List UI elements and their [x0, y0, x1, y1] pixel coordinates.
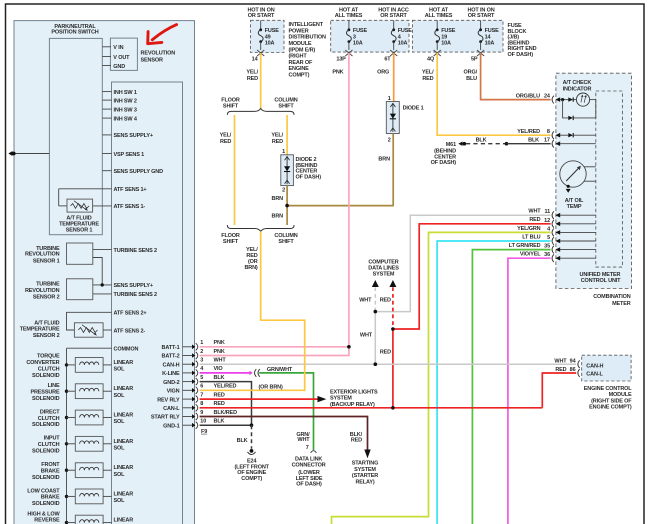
red annotation arrow [148, 25, 177, 44]
meter pin 8 connector [552, 131, 568, 139]
svg-text:M61: M61 [446, 142, 456, 148]
inline connector arcs [254, 369, 259, 377]
svg-text:WHT: WHT [528, 209, 541, 215]
wire WHT vertical to pin 3 [374, 312, 376, 365]
svg-text:INTELLIGENT: INTELLIGENT [289, 22, 324, 28]
wire ORG/BLU from fuse 14 to meter pin 24 [481, 53, 551, 100]
svg-text:SOLENOID: SOLENOID [32, 396, 60, 402]
svg-text:PNK: PNK [332, 70, 343, 76]
DATA LINK CONNECTOR label [292, 456, 326, 487]
svg-text:SENS SUPPLY+: SENS SUPPLY+ [114, 133, 153, 139]
svg-text:TEMP: TEMP [567, 204, 582, 210]
high & low reverse brake solenoid [27, 511, 133, 524]
svg-text:ATF SENS 1+: ATF SENS 1+ [114, 187, 147, 193]
diode pin 8 branch [568, 133, 596, 137]
svg-text:GND: GND [113, 64, 125, 70]
svg-text:CAN-H: CAN-H [586, 364, 603, 370]
wire BLK/RED pin 9 to starter relay [200, 417, 368, 451]
svg-text:FUSE: FUSE [485, 28, 500, 34]
ground E24 [248, 449, 256, 455]
svg-text:SYSTEM: SYSTEM [373, 271, 395, 277]
wire BRN below diode 2 [286, 186, 288, 225]
pin ATF SENS 2- [103, 329, 111, 331]
wire BRN horizontal to diode 1 branch [287, 205, 393, 207]
svg-text:LINEAR: LINEAR [114, 386, 134, 392]
svg-text:SOL: SOL [114, 445, 126, 451]
svg-text:WHT: WHT [360, 333, 373, 339]
svg-text:REAR OF: REAR OF [289, 60, 313, 66]
svg-text:K-LINE: K-LINE [162, 371, 180, 377]
svg-text:LT BLU: LT BLU [522, 234, 540, 240]
svg-text:SENSOR: SENSOR [141, 57, 164, 63]
svg-text:LINEAR: LINEAR [114, 439, 134, 445]
wire WHT pin 3 to ECM CAN-H [200, 363, 577, 365]
svg-text:1: 1 [200, 340, 203, 346]
combination meter outer box [556, 73, 632, 288]
svg-text:STARTING: STARTING [352, 461, 379, 467]
park/neutral position switch body box [49, 38, 102, 234]
svg-text:ORG/: ORG/ [464, 70, 478, 76]
svg-text:OR START: OR START [248, 13, 275, 19]
wire RED vertical to pin 8 [392, 329, 394, 408]
TCM pin 3 CAN-H [163, 358, 227, 369]
svg-text:5: 5 [200, 375, 203, 381]
svg-text:TORQUE: TORQUE [37, 354, 60, 360]
wire BRN below diode 1 [392, 134, 394, 207]
ECM pin 94 connector [578, 360, 580, 368]
svg-text:F9: F9 [201, 429, 207, 435]
low coast brake solenoid [27, 488, 133, 507]
svg-text:FUSE: FUSE [353, 28, 368, 34]
svg-text:19: 19 [441, 34, 447, 40]
svg-text:PRESSURE: PRESSURE [30, 390, 60, 396]
node lamp branch [561, 98, 564, 101]
svg-text:SOLENOID: SOLENOID [32, 449, 60, 455]
meter pin 4 connector [517, 226, 596, 237]
wire LT GRN/RED meter pin 35 [472, 250, 550, 524]
TCM inner pin-label box [112, 82, 183, 524]
svg-text:RED: RED [220, 139, 231, 145]
ENGINE CONTROL MODULE label [584, 386, 633, 411]
A/T check indicator lamp [576, 93, 595, 106]
wire RED meter pin 12 [393, 224, 551, 329]
svg-text:LINEAR: LINEAR [114, 360, 134, 366]
svg-text:GND-1: GND-1 [163, 423, 179, 429]
svg-text:BLK: BLK [237, 438, 248, 444]
diode D2 [281, 155, 294, 186]
svg-text:PNK: PNK [214, 340, 225, 346]
svg-text:OF DASH): OF DASH) [296, 174, 322, 180]
svg-text:REVOLUTION: REVOLUTION [25, 288, 60, 294]
pin VSP SENS 1 [102, 153, 111, 155]
node WHT pin 3 junction [374, 362, 378, 366]
label YEL/RED (OR BRN) [244, 247, 258, 271]
svg-text:OR START: OR START [380, 13, 407, 19]
svg-text:SOL: SOL [114, 498, 126, 504]
svg-text:UNIFIED METER: UNIFIED METER [580, 272, 621, 278]
svg-text:YEL/: YEL/ [246, 70, 258, 76]
svg-text:INH SW 3: INH SW 3 [114, 107, 137, 113]
svg-text:SHIFT: SHIFT [223, 103, 239, 109]
turbine revolution sensor 2 box [67, 279, 93, 300]
svg-text:LINEAR: LINEAR [114, 465, 134, 471]
svg-text:RED: RED [380, 350, 391, 356]
svg-text:7: 7 [306, 445, 309, 451]
svg-text:WHT: WHT [214, 358, 227, 364]
svg-text:10A: 10A [353, 41, 363, 47]
svg-text:6: 6 [200, 384, 203, 390]
svg-text:RED: RED [351, 437, 362, 443]
svg-text:WHT: WHT [359, 298, 372, 304]
svg-text:BLK: BLK [214, 419, 225, 425]
solenoid common bus wire [66, 348, 68, 522]
direct clutch solenoid [32, 409, 133, 428]
svg-text:VIO: VIO [214, 366, 224, 372]
fuse block J/B label [508, 23, 537, 58]
wire VIO pin 4 [200, 372, 250, 374]
svg-text:COMBINATION: COMBINATION [593, 294, 631, 300]
svg-text:A/T FLUID: A/T FLUID [34, 320, 59, 326]
brace merge floor/column (bottom) [227, 225, 294, 231]
data link connector arc [311, 451, 317, 453]
wire YEL/GRN meter pin 4 [332, 232, 551, 524]
svg-text:9: 9 [200, 410, 203, 416]
svg-text:CONTROL UNIT: CONTROL UNIT [581, 278, 621, 284]
svg-text:1: 1 [388, 96, 391, 102]
svg-text:6T: 6T [384, 57, 391, 63]
TCM panel (transmission control module) [14, 21, 195, 524]
arrow WHT computer data lines [372, 280, 379, 287]
input clutch solenoid [32, 436, 133, 455]
svg-text:A/T CHECK: A/T CHECK [563, 80, 592, 86]
svg-text:5P: 5P [471, 57, 478, 63]
svg-text:SENSOR 1: SENSOR 1 [33, 259, 60, 265]
svg-text:FUSE: FUSE [441, 28, 456, 34]
svg-text:SENSOR 2: SENSOR 2 [33, 333, 60, 339]
diode lower branch [568, 116, 596, 120]
wire PNK pin 1 [200, 346, 349, 348]
svg-text:35: 35 [544, 244, 550, 250]
svg-text:CONNECTOR: CONNECTOR [292, 462, 326, 468]
svg-text:TURBINE SENS 2: TURBINE SENS 2 [114, 248, 158, 254]
svg-text:ATF SENS 1-: ATF SENS 1- [114, 204, 146, 210]
svg-text:BRN: BRN [272, 214, 284, 220]
svg-text:BRN): BRN) [244, 265, 257, 271]
node RED pin 8 junction [391, 406, 395, 410]
fuse 3 [336, 20, 367, 62]
svg-text:OF DASH): OF DASH) [296, 481, 322, 487]
svg-text:OF DASH): OF DASH) [431, 160, 457, 166]
brace split floor/column (top) [227, 109, 294, 115]
svg-text:10A: 10A [265, 41, 275, 47]
pin INH SW 3 [102, 108, 111, 110]
TCM pin 7 REV RLY [157, 392, 225, 403]
wire WHT meter pin 11 [375, 215, 550, 311]
svg-text:VIO/YEL: VIO/YEL [520, 252, 541, 258]
svg-text:ORG: ORG [377, 70, 389, 76]
svg-text:OF DASH): OF DASH) [508, 52, 534, 58]
svg-text:VIGN: VIGN [167, 389, 180, 395]
svg-text:REV RLY: REV RLY [157, 397, 180, 403]
svg-text:SOL: SOL [114, 393, 126, 399]
svg-text:SHIFT: SHIFT [278, 103, 294, 109]
svg-text:RED: RED [214, 401, 225, 407]
svg-text:INH SW 2: INH SW 2 [114, 98, 137, 104]
svg-text:BLK: BLK [528, 138, 539, 144]
fuse 4 [384, 20, 412, 62]
svg-text:INPUT: INPUT [44, 436, 61, 442]
svg-text:INH SW 4: INH SW 4 [114, 116, 138, 122]
svg-text:DIRECT: DIRECT [40, 409, 60, 415]
svg-text:SYSTEM: SYSTEM [330, 396, 352, 402]
svg-text:3: 3 [353, 34, 356, 40]
svg-text:MODULE: MODULE [289, 41, 312, 47]
svg-text:RED: RED [529, 217, 540, 223]
arrow starting system [364, 450, 370, 459]
pin COMMON [67, 347, 112, 349]
svg-text:1: 1 [282, 149, 285, 155]
wire VIO/YEL meter pin 36 [508, 258, 551, 524]
svg-text:YEL/: YEL/ [271, 133, 283, 139]
svg-text:LINEAR: LINEAR [114, 518, 134, 524]
svg-text:CLUTCH: CLUTCH [38, 416, 60, 422]
svg-text:2: 2 [200, 349, 203, 355]
svg-text:TEMPERATURE: TEMPERATURE [59, 222, 99, 228]
node RED branch to meter [391, 327, 395, 331]
svg-text:7: 7 [200, 392, 203, 398]
VSP node dot and left arrow [12, 152, 16, 156]
E24 label [234, 458, 269, 482]
svg-text:METER: METER [612, 301, 631, 307]
IPDM module label [289, 22, 326, 78]
meter pin 35 connector [509, 243, 596, 254]
svg-text:SOL: SOL [114, 419, 126, 425]
line pressure solenoid [30, 383, 133, 402]
svg-text:COMPT): COMPT) [289, 73, 310, 79]
wire sens supply+ [93, 284, 112, 286]
wire PNK pin 2 [200, 355, 350, 357]
A/T fluid temperature sensor 1 (thermistor) [67, 199, 93, 212]
wire BLK pin 10 [200, 424, 252, 426]
fuse 14 [471, 20, 499, 62]
wire sensor1 to sens supply bus [93, 258, 102, 285]
wire YEL/RED pin 6 [200, 231, 305, 390]
node sens supply junction [101, 283, 104, 286]
svg-text:RED: RED [214, 392, 225, 398]
pin SENS SUPPLY GND [102, 170, 111, 172]
svg-text:BRN: BRN [272, 196, 284, 202]
fuse box: IPDM E/R [251, 20, 285, 52]
svg-text:A/T FLUID: A/T FLUID [66, 215, 91, 221]
wire YEL/RED floor shift branch [234, 115, 236, 225]
ground M61 [446, 142, 551, 149]
svg-text:8: 8 [547, 129, 550, 135]
svg-text:SENS SUPPLY GND: SENS SUPPLY GND [114, 169, 164, 175]
svg-text:SOLENOID: SOLENOID [32, 422, 60, 428]
svg-text:CAN-H: CAN-H [163, 362, 180, 368]
svg-text:SYSTEM: SYSTEM [354, 467, 376, 473]
svg-text:TEMPERATURE: TEMPERATURE [20, 327, 60, 333]
fuse box: fuse block J/B right [412, 20, 503, 52]
svg-text:ALL TIMES: ALL TIMES [335, 13, 363, 19]
fuse box: fuse block J/B left [331, 20, 409, 52]
svg-text:YEL/: YEL/ [220, 133, 232, 139]
svg-text:YEL/: YEL/ [422, 70, 434, 76]
svg-text:ORG/BLU: ORG/BLU [516, 94, 540, 100]
unified meter control unit inner box [596, 91, 623, 267]
wire RED ECM CAN-L to pin 8 run [542, 373, 576, 408]
svg-text:CAN-L: CAN-L [163, 406, 180, 412]
svg-text:ENGINE CONTROL: ENGINE CONTROL [584, 386, 632, 392]
front brake solenoid [32, 462, 133, 481]
A/T oil temp gauge [560, 161, 596, 193]
ECM pin 86 connector [578, 369, 580, 377]
pin ATF SENS 1- wire segments [58, 189, 60, 206]
pin GND [102, 65, 111, 67]
svg-text:BLK: BLK [476, 138, 487, 144]
TCM pin 6 VIGN [167, 384, 237, 395]
pin INH SW 2 [102, 99, 111, 101]
svg-text:BRAKE: BRAKE [41, 469, 60, 475]
svg-text:YEL/RED: YEL/RED [517, 129, 540, 135]
svg-text:LINEAR: LINEAR [114, 413, 134, 419]
svg-text:POWER: POWER [289, 28, 309, 34]
svg-text:10A: 10A [398, 41, 408, 47]
svg-text:RELAY): RELAY) [355, 480, 374, 486]
TCM pin 4 K-LINE [162, 366, 223, 377]
svg-text:BRAKE: BRAKE [41, 495, 60, 501]
arrow VIO inline connector [249, 371, 252, 375]
wire RED pin 8 CAN-L [200, 407, 543, 409]
node BLK ground junction [250, 423, 254, 427]
svg-text:CONVERTER: CONVERTER [26, 360, 59, 366]
wire turbine sens 2 (sensor 2) [93, 293, 112, 295]
meter pin 36 connector [520, 252, 596, 263]
svg-text:PNK: PNK [214, 349, 225, 355]
svg-text:INDICATOR: INDICATOR [563, 87, 592, 93]
diode to A/T check lamp [568, 97, 576, 101]
svg-text:SENSOR 1: SENSOR 1 [66, 228, 93, 234]
wire YEL/RED from fuse 49 [260, 53, 262, 109]
pin INH SW 4 [102, 117, 111, 119]
TCM pin 8 CAN-L [163, 401, 225, 412]
pin ATF SENS 1+ [59, 188, 112, 190]
svg-text:SOL: SOL [114, 367, 126, 373]
diode D1 [386, 102, 399, 134]
arrow exterior lights [318, 396, 327, 402]
svg-text:EXTERIOR LIGHTS: EXTERIOR LIGHTS [330, 389, 378, 395]
svg-text:SOL: SOL [114, 472, 126, 478]
svg-text:10A: 10A [485, 41, 495, 47]
svg-text:ENGINE COMPT): ENGINE COMPT) [589, 405, 632, 411]
svg-text:V IN: V IN [113, 45, 123, 51]
svg-text:REVOLUTION: REVOLUTION [25, 252, 60, 258]
meter pin 11 connector [528, 209, 595, 220]
wire YEL/RED column shift branch [286, 115, 288, 155]
meter pin 5 connector [522, 234, 596, 245]
svg-text:COMPT): COMPT) [241, 476, 262, 482]
revolution sensor box [110, 38, 137, 70]
svg-text:SHIFT: SHIFT [278, 239, 294, 245]
svg-text:(RIGHT SIDE OF: (RIGHT SIDE OF [591, 398, 632, 404]
wire BLK dashed to E24 [251, 425, 253, 449]
svg-text:SOLENOID: SOLENOID [32, 501, 60, 507]
svg-text:5: 5 [547, 235, 550, 241]
meter pin 17 connector [552, 140, 596, 148]
svg-text:ATF SENS 2-: ATF SENS 2- [114, 328, 146, 334]
A/T fluid temperature sensor 2 (thermistor) [74, 323, 103, 337]
svg-text:VSP SENS 1: VSP SENS 1 [114, 152, 145, 158]
wire WHT to computer data lines (dashed) [374, 287, 376, 311]
svg-text:TURBINE: TURBINE [36, 282, 60, 288]
meter pin 24 connector [552, 96, 568, 104]
svg-text:10A: 10A [441, 41, 451, 47]
svg-text:SENSOR 2: SENSOR 2 [33, 294, 60, 300]
svg-text:LINEAR: LINEAR [114, 491, 134, 497]
wire GRN/WHT to data link connector [259, 373, 313, 450]
svg-text:36: 36 [544, 252, 550, 258]
svg-text:GND-2: GND-2 [163, 380, 179, 386]
svg-text:POSITION SWITCH: POSITION SWITCH [51, 30, 98, 36]
torque converter clutch solenoid [26, 354, 133, 379]
fuse 19 [427, 20, 456, 62]
svg-text:RED: RED [422, 76, 433, 82]
turbine revolution sensor 1 box [67, 243, 93, 264]
wire LT BLU meter pin 5 [437, 241, 550, 524]
pin SENS SUPPLY+ [102, 134, 111, 136]
svg-text:BLK: BLK [214, 375, 225, 381]
svg-text:BRN: BRN [378, 157, 390, 163]
TCM pin 10 GND-1 [163, 419, 224, 430]
wire YEL/RED from fuse 19 to meter pin 8 [437, 53, 550, 135]
svg-text:ALL TIMES: ALL TIMES [425, 13, 453, 19]
svg-text:10: 10 [200, 419, 206, 425]
svg-text:FUSE: FUSE [398, 28, 413, 34]
wire turbine sens 2 (sensor 1) [93, 249, 112, 251]
meter pin 12 connector [529, 217, 595, 228]
wire joining lamp branches [595, 100, 597, 118]
wire RED pin 7 to backup relay [200, 398, 319, 400]
svg-text:INH SW 1: INH SW 1 [114, 90, 137, 96]
wire PNK from fuse 3 [348, 53, 350, 356]
svg-text:ATF SENS 2+: ATF SENS 2+ [114, 311, 147, 317]
wire RED to computer data lines (dashed) [392, 287, 394, 329]
svg-text:2: 2 [282, 188, 285, 194]
wire ORG from fuse 4 [393, 53, 395, 102]
svg-text:DIODE 1: DIODE 1 [403, 106, 424, 112]
wire BLK pin 5 [200, 382, 252, 426]
svg-text:WHT: WHT [297, 437, 310, 443]
svg-text:RED: RED [247, 76, 258, 82]
svg-text:CAN-L: CAN-L [586, 372, 603, 378]
pin ATF SENS 2+ [67, 312, 112, 330]
svg-text:YEL/GRN: YEL/GRN [517, 226, 541, 232]
TCM pin 9 START RLY [151, 410, 237, 421]
STARTING SYSTEM label [352, 461, 379, 486]
svg-text:BLU: BLU [466, 76, 477, 82]
svg-text:SHIFT: SHIFT [223, 239, 239, 245]
svg-text:49: 49 [265, 34, 271, 40]
svg-text:RED: RED [380, 298, 391, 304]
svg-text:13P: 13P [336, 57, 346, 63]
svg-text:BLK/RED: BLK/RED [214, 410, 238, 416]
svg-text:REVOLUTION: REVOLUTION [141, 50, 176, 56]
svg-text:FRONT: FRONT [41, 462, 60, 468]
svg-text:TURBINE SENS 2: TURBINE SENS 2 [114, 292, 158, 298]
svg-text:SOLENOID: SOLENOID [32, 475, 60, 481]
svg-text:V OUT: V OUT [113, 55, 130, 61]
svg-text:(IPDM E/R): (IPDM E/R) [289, 47, 316, 53]
